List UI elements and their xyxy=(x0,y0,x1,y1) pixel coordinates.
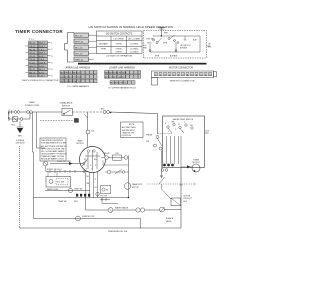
motor windings xyxy=(82,150,100,171)
water valve feed circle xyxy=(108,208,113,213)
lid switch plug connector xyxy=(65,33,89,63)
svg-text:LID OPEN: LID OPEN xyxy=(114,38,124,40)
svg-text:LID SWITCH OPERATION: LID SWITCH OPERATION xyxy=(106,55,132,58)
upper harness cell text xyxy=(60,73,82,84)
svg-text:MOTOR: MOTOR xyxy=(76,143,84,145)
svg-text:5: 5 xyxy=(91,169,92,171)
svg-text:G-W 8: G-W 8 xyxy=(39,63,46,65)
plug connector circles on rail xyxy=(14,111,32,114)
svg-text:W-Y 1: W-Y 1 xyxy=(39,69,46,71)
svg-text:VIEW LOOKING INTO CONNECTOR: VIEW LOOKING INTO CONNECTOR xyxy=(22,80,59,82)
rail continuation dashed xyxy=(73,111,103,113)
svg-text:CLOSED: CLOSED xyxy=(130,43,139,45)
svg-text:LID SWITCH SHOWN IN NORMAL HIG: LID SWITCH SHOWN IN NORMAL HIGH SPEED OP… xyxy=(89,25,174,29)
pump motor xyxy=(76,216,81,221)
wire to motor xyxy=(83,159,88,164)
svg-text:PRESSURE FILL SW: PRESSURE FILL SW xyxy=(108,231,127,233)
notes box xyxy=(40,138,66,161)
bus end connector marks xyxy=(100,198,118,204)
svg-text:PK-17: PK-17 xyxy=(29,69,36,71)
svg-text:BLU-16: BLU-16 xyxy=(75,47,83,49)
temp switch contacts xyxy=(167,123,193,133)
svg-text:1: 1 xyxy=(84,165,85,167)
temp switch dashed link xyxy=(158,133,173,135)
svg-text:SW: SW xyxy=(144,48,147,50)
water valve solenoids xyxy=(136,208,140,212)
svg-text:OPEN: OPEN xyxy=(116,52,122,54)
lid switch circuit dashed box xyxy=(144,31,207,59)
rail connector pair xyxy=(103,111,110,114)
console connector xyxy=(75,119,79,123)
svg-text:SPIN: SPIN xyxy=(163,43,168,45)
svg-text:TIMER CONNECTOR: TIMER CONNECTOR xyxy=(15,29,63,34)
svg-text:AGITATE: AGITATE xyxy=(99,42,108,45)
svg-text:AGITATE: AGITATE xyxy=(170,55,178,58)
svg-text:1234567890123: 1234567890123 xyxy=(155,74,214,76)
relay row 1 xyxy=(101,155,129,160)
svg-text:W-B 4: W-B 4 xyxy=(39,43,46,45)
svg-text:MAIN: MAIN xyxy=(29,101,35,104)
table text xyxy=(99,33,140,54)
svg-text:W.L. SW: W.L. SW xyxy=(57,182,64,184)
svg-text:3: 3 xyxy=(182,131,183,133)
svg-text:SPIN: SPIN xyxy=(155,56,160,58)
svg-text:1: 1 xyxy=(168,131,169,133)
start capacitor xyxy=(124,183,130,189)
svg-text:WH-13: WH-13 xyxy=(29,66,36,68)
speed switch row xyxy=(46,171,88,173)
ground symbol xyxy=(17,121,24,127)
svg-text:ALL SWITCHES: ALL SWITCHES xyxy=(122,126,137,129)
thick section divider xyxy=(78,63,207,65)
svg-text:GRN-16: GRN-16 xyxy=(75,59,84,61)
right rail dashed branch xyxy=(147,183,195,185)
svg-text:PROTECT: PROTECT xyxy=(184,198,193,200)
svg-text:WH BK RD GN YL TN B: WH BK RD GN YL TN B xyxy=(105,73,127,75)
svg-text:BLEACH: BLEACH xyxy=(166,217,174,220)
svg-text:VALVE: VALVE xyxy=(166,220,172,223)
svg-text:YL: YL xyxy=(95,179,97,181)
svg-text:POSITION: POSITION xyxy=(122,135,132,137)
svg-text:YL-10: YL-10 xyxy=(29,63,35,65)
motor lead labels xyxy=(87,176,98,189)
right edge tick xyxy=(205,132,209,134)
svg-text:VOLTAGE: VOLTAGE xyxy=(16,139,25,142)
top supply rail xyxy=(8,110,62,115)
svg-text:MOTOR CONNECTOR: MOTOR CONNECTOR xyxy=(169,68,193,70)
water valve row wires xyxy=(86,198,182,211)
svg-text:NOTE: NOTE xyxy=(129,124,135,126)
push to start switch row xyxy=(43,161,48,166)
temp switch row xyxy=(45,190,90,192)
svg-text:SPIN: SPIN xyxy=(101,49,106,51)
svg-text:FOR MACHINES W/ LID SW: FOR MACHINES W/ LID SW xyxy=(41,141,66,144)
water level switch box xyxy=(46,177,71,188)
svg-text:BN-19: BN-19 xyxy=(29,72,36,74)
relay row 2 xyxy=(105,170,129,174)
svg-text:OVL: OVL xyxy=(91,131,95,133)
svg-text:LOWER LINE HARNESS: LOWER LINE HARNESS xyxy=(109,67,135,70)
svg-text:B-W 5: B-W 5 xyxy=(39,56,46,58)
pressure switch cluster xyxy=(154,136,163,151)
svg-text:TEMP SW: TEMP SW xyxy=(74,188,83,190)
svg-text:3: 3 xyxy=(95,165,96,167)
svg-text:GN-20: GN-20 xyxy=(29,76,36,78)
svg-text:OPEN: OPEN xyxy=(116,49,122,51)
lid circuit wires xyxy=(150,35,210,52)
svg-text:R-W 7: R-W 7 xyxy=(39,46,46,48)
svg-text:MTR: MTR xyxy=(148,43,153,45)
lid switch operation table xyxy=(97,31,143,54)
unbalance switch box xyxy=(62,109,73,116)
neutral dotted drop xyxy=(19,146,21,228)
motor connector strip xyxy=(152,71,217,85)
svg-text:BK-12: BK-12 xyxy=(29,43,36,45)
svg-text:RD-14: RD-14 xyxy=(29,56,36,58)
agitate solenoid xyxy=(160,207,165,212)
line filter component xyxy=(13,117,18,122)
svg-text:BU-18: BU-18 xyxy=(29,49,36,51)
timer connector grid xyxy=(29,41,48,77)
svg-text:WW: WW xyxy=(172,122,176,124)
notes box text xyxy=(41,140,67,160)
svg-text:OR-15: OR-15 xyxy=(29,46,36,48)
right rail xyxy=(180,168,182,229)
svg-text:PUSH TO START: PUSH TO START xyxy=(57,160,72,163)
upper harness connector block xyxy=(60,71,97,83)
svg-text:2: 2 xyxy=(175,129,176,131)
svg-text:CLOSED: CLOSED xyxy=(130,49,139,51)
left drop wires xyxy=(33,112,46,219)
bottom rail xyxy=(20,227,182,230)
svg-text:UPPER LINE HARNESS: UPPER LINE HARNESS xyxy=(65,67,91,70)
svg-text:WHT-16: WHT-16 xyxy=(75,41,84,43)
svg-text:MOTOR: MOTOR xyxy=(184,195,191,197)
neutral line xyxy=(8,112,30,121)
lower harness connector block xyxy=(105,71,141,85)
svg-text:SW: SW xyxy=(146,141,149,143)
pressure hose wire xyxy=(159,151,165,190)
svg-text:SW: SW xyxy=(208,46,211,48)
svg-text:TIMER SW: TIMER SW xyxy=(58,201,67,203)
speed switch drops xyxy=(48,172,57,177)
svg-text:FILL SW: FILL SW xyxy=(101,196,108,198)
svg-text:WATER TEMP SWITCH: WATER TEMP SWITCH xyxy=(173,118,194,121)
small aux box xyxy=(101,186,111,194)
timer motor TM xyxy=(192,164,200,172)
svg-text:TIMER: TIMER xyxy=(193,159,200,161)
svg-text:BYPASS: BYPASS xyxy=(180,47,188,50)
timer grid pin stubs right xyxy=(26,43,51,76)
svg-text:CLOSED: CLOSED xyxy=(130,52,139,54)
svg-text:PUMP MOTOR: PUMP MOTOR xyxy=(82,216,95,218)
svg-text:SWITCH: SWITCH xyxy=(62,105,71,107)
water temperature switch box xyxy=(163,116,205,168)
svg-text:MAIN: MAIN xyxy=(78,139,83,142)
svg-text:W-R 9: W-R 9 xyxy=(39,53,46,55)
svg-text:TWO SPD: TWO SPD xyxy=(146,39,155,41)
svg-text:Y-R 2: Y-R 2 xyxy=(39,49,45,51)
svg-text:GY-11: GY-11 xyxy=(29,53,36,55)
lower harness cell text xyxy=(105,73,128,85)
svg-text:OPEN: OPEN xyxy=(116,43,122,45)
svg-text:TN-16: TN-16 xyxy=(29,59,36,61)
svg-text:LID CLOSED: LID CLOSED xyxy=(128,38,141,40)
svg-text:UNBALANCE: UNBALANCE xyxy=(60,102,73,105)
temp switch terminal dots xyxy=(163,164,174,167)
note box center xyxy=(121,122,144,138)
lid circuit labels xyxy=(146,33,198,58)
svg-text:B-R 5: B-R 5 xyxy=(39,72,45,74)
motor protector box xyxy=(171,198,181,206)
svg-text:Y-B 3: Y-B 3 xyxy=(39,59,45,61)
svg-text:RD BU WH TN GN YL P: RD BU WH TN GN YL P xyxy=(60,81,82,83)
svg-text:BK W RD YL GN BU T: BK W RD YL GN BU T xyxy=(60,73,81,75)
svg-text:R-B 6: R-B 6 xyxy=(39,66,45,68)
svg-text:SPEED SW HI LO: SPEED SW HI LO xyxy=(47,169,62,171)
lower bus wire xyxy=(34,197,129,199)
svg-text:VIEW INTO CONNECTOR: VIEW INTO CONNECTOR xyxy=(170,81,195,83)
svg-text:RD WH BU GN YL: RD WH BU GN YL xyxy=(110,83,128,85)
svg-text:RELAY: RELAY xyxy=(104,152,111,155)
rail to right corner xyxy=(110,112,158,134)
svg-text:4: 4 xyxy=(86,169,87,171)
relay link wire xyxy=(103,161,129,166)
svg-text:BU RD WH YL GN PK T: BU RD WH YL GN PK T xyxy=(105,77,127,79)
svg-text:YEL-16: YEL-16 xyxy=(75,53,83,55)
svg-text:2: 2 xyxy=(90,165,91,167)
svg-text:COIL: COIL xyxy=(115,153,119,155)
svg-text:MOTOR: MOTOR xyxy=(132,187,139,189)
timer grid cell text xyxy=(29,39,53,78)
right cluster vertical xyxy=(128,156,130,198)
temp switch contact labels xyxy=(165,122,193,133)
svg-text:PRESS: PRESS xyxy=(146,135,153,137)
svg-text:V-W 2: V-W 2 xyxy=(39,76,46,78)
svg-text:120V 60HZ: 120V 60HZ xyxy=(15,143,25,145)
svg-text:CAPACITOR: CAPACITOR xyxy=(132,183,143,186)
motor connector pins xyxy=(155,72,212,75)
motor feed wire xyxy=(85,112,88,147)
svg-text:WATER VALVE: WATER VALVE xyxy=(115,206,129,209)
svg-text:WH RD BK GY YL TN B: WH RD BK GY YL TN B xyxy=(60,77,82,79)
overload protector xyxy=(86,130,90,134)
svg-text:TO UPPER HARNESS PLUG: TO UPPER HARNESS PLUG xyxy=(108,87,136,90)
plug slot labels xyxy=(75,35,84,61)
motor M1 xyxy=(80,147,106,173)
bus component circle xyxy=(96,192,99,195)
svg-text:POWER CORD: POWER CORD xyxy=(25,105,40,107)
motor connector blobs xyxy=(76,194,90,197)
temp switch drop wires xyxy=(167,136,182,168)
svg-text:LID SWITCH CONTACTS: LID SWITCH CONTACTS xyxy=(106,33,133,36)
under motor drop wires xyxy=(86,172,98,198)
lid circuit contacts xyxy=(149,38,177,52)
lid circuit top stub xyxy=(158,27,165,36)
svg-text:TO LOWER HARNESS: TO LOWER HARNESS xyxy=(67,85,89,88)
svg-text:BLK-16: BLK-16 xyxy=(75,35,83,37)
console dashed feed xyxy=(40,120,74,122)
plug leads to table xyxy=(89,35,97,59)
pump row xyxy=(34,218,141,220)
